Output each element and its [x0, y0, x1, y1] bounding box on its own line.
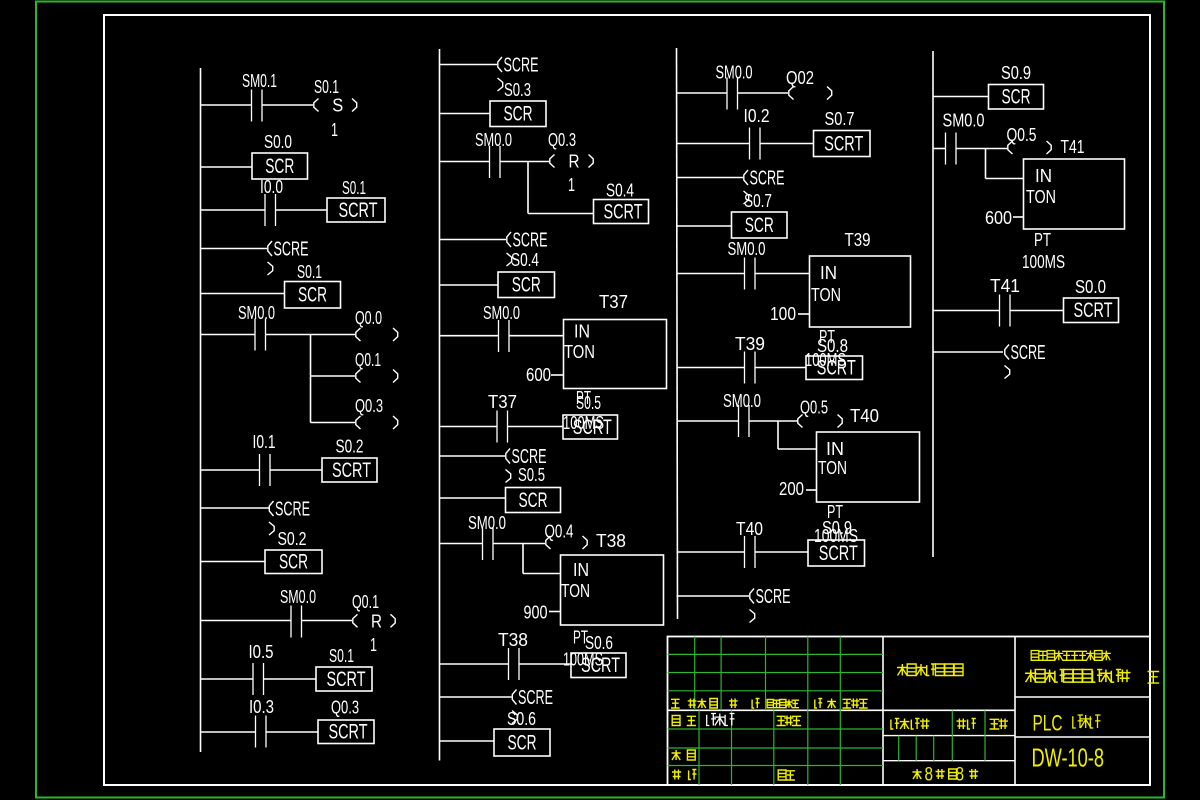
title white line stage row bottom	[883, 735, 1015, 737]
svg-text:R: R	[371, 610, 382, 631]
svg-text:SCRT: SCRT	[329, 720, 368, 744]
label Q0.4	[545, 521, 574, 542]
wire rung11 col1	[201, 678, 254, 680]
svg-text:SCRT: SCRT	[573, 415, 612, 439]
title green vline mid 3	[951, 710, 953, 760]
coil SCRE rung8 col2	[506, 446, 547, 483]
wire rung2 col4	[933, 148, 946, 150]
label S0.0	[264, 131, 292, 152]
box SCRT S0.1	[327, 198, 385, 222]
label DW-10-8	[1032, 743, 1105, 773]
box SCRT S0.4	[594, 199, 649, 223]
label qingshuru material name	[897, 664, 963, 676]
title green vline lower 1	[731, 710, 733, 785]
label T37 contact	[488, 391, 517, 412]
svg-text:S: S	[332, 95, 343, 116]
svg-text:S0.7: S0.7	[744, 190, 772, 211]
contact I0.3	[256, 716, 267, 748]
label ban char	[1148, 672, 1160, 684]
title green vline lower 2	[773, 710, 775, 785]
box SCR S0.0	[252, 153, 308, 179]
label Q0.3 rung12	[331, 697, 359, 718]
svg-text:PLC: PLC	[1033, 711, 1063, 736]
wire rung8 col3	[677, 551, 745, 553]
svg-text:Q02: Q02	[786, 67, 814, 88]
label chushu header	[698, 699, 718, 709]
svg-text:SCRT: SCRT	[819, 541, 858, 565]
title green hline lower 0	[668, 728, 884, 730]
svg-text:8: 8	[956, 765, 965, 786]
coil R Q0.3	[550, 151, 593, 172]
label T39 above box	[845, 229, 871, 250]
label biaozhunhua	[777, 716, 802, 726]
svg-text:T37: T37	[488, 391, 517, 412]
label pizhun	[778, 770, 795, 780]
svg-text:SCR: SCR	[519, 488, 548, 512]
label jieduanbiaoji	[891, 719, 930, 730]
box SCRT S0.1 rung11	[316, 667, 372, 691]
svg-text:I0.1: I0.1	[253, 431, 276, 452]
svg-text:200: 200	[779, 478, 804, 499]
svg-text:Q0.3: Q0.3	[548, 129, 576, 150]
label zhang2	[969, 769, 978, 779]
title green hline lower 2	[668, 765, 884, 767]
contact T39	[745, 352, 756, 384]
label 600 T41	[985, 207, 1012, 228]
svg-text:SCRE: SCRE	[274, 239, 309, 261]
label TON T37	[564, 341, 595, 362]
contact SM0.0 rung3 col2	[490, 146, 501, 178]
label 100MS T41	[1022, 251, 1065, 272]
svg-text:S0.1: S0.1	[342, 177, 366, 198]
title white line cells row bottom	[883, 760, 1015, 762]
svg-text:TON: TON	[561, 580, 590, 601]
label biaoji header	[671, 699, 697, 709]
coil Q02	[789, 87, 832, 100]
wire rung2 col3	[677, 143, 750, 145]
label SM0.0 rung6 col2	[483, 302, 520, 323]
timer box T37 TON	[564, 320, 667, 389]
label bili	[990, 719, 1009, 730]
svg-text:SM0.0: SM0.0	[716, 62, 753, 83]
svg-text:1: 1	[331, 119, 338, 140]
wire rung8 col1	[201, 507, 270, 509]
title green hline upper 1	[668, 672, 884, 674]
contact SM0.0 rung10 col2	[483, 528, 494, 560]
svg-text:S0.0: S0.0	[264, 131, 292, 152]
col3 left power rail	[677, 48, 678, 619]
label I0.1	[253, 431, 276, 452]
branch vertical rung2 col4	[985, 149, 987, 179]
wire rung5 col1	[201, 293, 285, 295]
label PT below T39	[819, 326, 835, 347]
wire rung4 col1	[201, 248, 268, 250]
wire to R coil col1	[302, 620, 353, 622]
wire to TON T39	[755, 273, 810, 275]
label 200 T40	[779, 478, 804, 499]
label S0.1 rung5	[297, 261, 322, 282]
wire rung5 col2	[440, 284, 499, 286]
svg-text:T38: T38	[498, 629, 528, 650]
svg-text:S0.4: S0.4	[511, 249, 539, 270]
label I0.3	[249, 696, 274, 717]
svg-text:Q0.3: Q0.3	[355, 395, 383, 416]
branch wire to Q0.1	[311, 375, 356, 377]
box SCRT S0.9	[808, 540, 865, 566]
box SCRT Q0.3	[318, 720, 374, 744]
svg-text:IN: IN	[826, 438, 844, 459]
title green hline upper 2	[668, 690, 884, 692]
branch wire to SCRT S0.4	[528, 213, 594, 215]
wire rung3 col2	[440, 161, 490, 163]
wire rung1 col2	[440, 64, 498, 66]
wire to Q0.4 coil	[493, 543, 545, 545]
label PT below T40	[827, 501, 843, 522]
label TON T39	[811, 284, 841, 305]
title block outline	[668, 637, 1151, 786]
label SM0.0 rung6 col1	[238, 302, 275, 323]
contact T40	[745, 536, 756, 568]
svg-text:SM0.0: SM0.0	[280, 586, 316, 607]
svg-text:SCRT: SCRT	[332, 458, 371, 482]
svg-text:SM0.0: SM0.0	[475, 129, 512, 150]
label I0.5	[249, 641, 274, 662]
svg-text:TON: TON	[811, 284, 841, 305]
label S0.6 rung13 col2	[507, 708, 536, 729]
label SM0.0 rung1 col3	[716, 62, 753, 83]
svg-text:T39: T39	[735, 333, 765, 354]
svg-text:SM0.0: SM0.0	[468, 512, 506, 533]
svg-text:S0.5: S0.5	[518, 464, 545, 485]
svg-text:S0.9: S0.9	[1001, 62, 1031, 83]
svg-text:100: 100	[770, 303, 796, 324]
wire to SCRT Q0.3	[266, 731, 318, 733]
wire to SCRT S0.7	[760, 143, 814, 145]
wire to SCRT S0.6	[519, 663, 571, 665]
svg-text:I0.5: I0.5	[249, 641, 274, 662]
svg-text:S0.9: S0.9	[822, 517, 852, 538]
box SCRT S0.0	[1064, 298, 1119, 323]
coil SCRE rung8 col1	[269, 499, 310, 536]
wire contact to S coil	[263, 104, 314, 106]
svg-text:SCRE: SCRE	[756, 586, 791, 608]
label IN T41	[1035, 165, 1052, 186]
label S0.4 rung3	[606, 180, 634, 201]
label Q0.5 col3	[800, 397, 828, 418]
svg-text:SCR: SCR	[504, 102, 533, 126]
coil SCRE rung4 col4	[1005, 342, 1046, 379]
label 8 page	[956, 765, 965, 786]
wire rung11 col2	[440, 663, 509, 665]
wire rung3 col1	[201, 209, 266, 211]
box SCRT S0.7	[814, 131, 871, 157]
label 8 total	[925, 765, 934, 786]
wire rung9 col1	[201, 561, 266, 563]
label S0.5 rung7	[576, 392, 601, 413]
wire to SCRT S0.0	[1010, 310, 1064, 312]
svg-text:S0.2: S0.2	[278, 528, 307, 549]
label 100 T39	[770, 303, 796, 324]
col4 left power rail	[932, 51, 934, 557]
svg-text:I0.0: I0.0	[260, 176, 283, 197]
label 100MS T37	[563, 412, 604, 433]
label S0.9 rung8	[822, 517, 852, 538]
svg-text:SM0.0: SM0.0	[728, 238, 766, 259]
svg-text:Q0.4: Q0.4	[545, 521, 574, 542]
coil R Q0.1	[353, 610, 395, 631]
svg-text:S0.8: S0.8	[817, 335, 848, 356]
box SCR S0.6	[494, 729, 550, 756]
label SM0.0 rung10 col1	[280, 586, 316, 607]
wire rung3 col4	[933, 310, 999, 312]
svg-text:IN: IN	[573, 559, 589, 580]
coil S S0.1	[314, 95, 357, 116]
box SCR S0.2	[265, 550, 322, 574]
branch wire to TON T41	[986, 178, 1024, 180]
label school name	[1031, 651, 1111, 661]
svg-text:SCRT: SCRT	[824, 131, 863, 155]
label gongyi	[672, 770, 696, 780]
label IN T40	[826, 438, 844, 459]
label PT below T37	[576, 387, 591, 408]
title green vline lower 3	[807, 710, 809, 785]
svg-text:S0.2: S0.2	[336, 436, 364, 457]
contact I0.2	[750, 128, 761, 160]
label 1 below R coil col2	[568, 174, 575, 195]
svg-text:TON: TON	[564, 341, 595, 362]
svg-text:600: 600	[526, 364, 551, 385]
svg-text:SCR: SCR	[745, 213, 774, 237]
wire rung5 col3	[677, 273, 745, 275]
coil SCRE rung1 col2	[498, 55, 539, 92]
wire to SCRT S0.5	[508, 426, 564, 428]
label T41 above box	[1061, 136, 1085, 157]
label nianyueri header	[843, 699, 868, 709]
title divider vertical mid-left	[882, 637, 884, 786]
svg-text:600: 600	[985, 207, 1012, 228]
contact I0.5	[253, 663, 264, 695]
svg-text:S0.1: S0.1	[329, 645, 354, 666]
label zhang1	[936, 769, 945, 779]
title green vline lower 0	[698, 710, 700, 785]
coil Q0.3	[356, 416, 398, 429]
label S0.1 rung3	[342, 177, 366, 198]
wire rung10 col2	[440, 543, 483, 545]
svg-text:IN: IN	[820, 262, 837, 283]
wire to Q02 coil	[738, 92, 789, 94]
label S0.9 col4	[1001, 62, 1031, 83]
label 100MS T38	[563, 649, 603, 670]
label T40 contact	[736, 518, 763, 539]
svg-text:SCRT: SCRT	[339, 198, 378, 222]
branch vertical rung3 col2	[527, 162, 529, 214]
wire rung12 col2	[440, 696, 512, 698]
contact SM0.1	[252, 90, 263, 122]
wire to R coil col2	[500, 161, 549, 163]
label 600 T37	[526, 364, 551, 385]
wire to SCRT S0.1	[276, 209, 328, 211]
label S0.7 rung4 col3	[744, 190, 772, 211]
contact T41	[1000, 295, 1011, 327]
wire PT stub T38	[549, 611, 561, 613]
title green vline mid 0	[898, 736, 900, 761]
svg-text:I0.3: I0.3	[249, 696, 274, 717]
svg-text:1: 1	[370, 634, 377, 655]
label S0.8 rung6	[817, 335, 848, 356]
label T41 contact	[990, 275, 1020, 296]
svg-text:SM0.1: SM0.1	[242, 70, 277, 91]
contact SM0.0 rung7 col3	[739, 405, 750, 437]
svg-text:T40: T40	[736, 518, 763, 539]
svg-text:SCRT: SCRT	[817, 356, 856, 380]
title green vline mid 2	[933, 736, 935, 761]
wire rung4 col2	[440, 239, 507, 241]
label qianming header	[815, 699, 836, 709]
svg-text:T39: T39	[845, 229, 871, 250]
svg-text:S0.1: S0.1	[314, 76, 339, 97]
svg-text:SM0.0: SM0.0	[943, 110, 985, 131]
svg-text:SM0.0: SM0.0	[723, 390, 761, 411]
svg-text:IN: IN	[1035, 165, 1052, 186]
svg-text:T41: T41	[990, 275, 1020, 296]
box SCR S0.3	[490, 101, 546, 127]
label S0.5 rung9 col2	[518, 464, 545, 485]
box SCRT S0.5	[563, 415, 618, 439]
svg-text:PT: PT	[1034, 229, 1051, 250]
svg-text:S0.5: S0.5	[576, 392, 601, 413]
contact SM0.0 rung2 col4	[946, 133, 957, 165]
svg-text:S0.7: S0.7	[825, 108, 855, 129]
svg-text:T40: T40	[850, 405, 879, 426]
svg-text:900: 900	[524, 602, 548, 623]
label di	[949, 769, 957, 779]
wire to SCRT S0.9	[755, 551, 808, 553]
wire rung4 col4	[933, 351, 1003, 353]
svg-text:SCR: SCR	[298, 283, 327, 307]
col2 left power rail	[439, 49, 441, 761]
svg-text:SCRT: SCRT	[1074, 298, 1113, 322]
label I0.2	[744, 105, 770, 126]
svg-text:IN: IN	[574, 321, 590, 342]
contact SM0.0 rung10 col1	[291, 606, 302, 638]
wire rung8 col2	[440, 455, 506, 457]
label IN T37	[574, 321, 590, 342]
col1 left power rail	[200, 68, 202, 752]
svg-text:TON: TON	[818, 457, 847, 478]
wire rung12 col1	[201, 731, 256, 733]
label Q0.0	[355, 307, 382, 328]
contact SM0.0 rung6 col1	[255, 319, 266, 351]
label SM0.0 rung2 col4	[943, 110, 985, 131]
label gong	[913, 769, 922, 779]
label S0.2 rung9	[278, 528, 307, 549]
title green hline lower 1	[668, 747, 884, 749]
coil SCRE rung12 col2	[512, 687, 553, 724]
svg-text:SM0.0: SM0.0	[238, 302, 275, 323]
label PT below T38	[573, 627, 588, 648]
svg-text:8: 8	[925, 765, 934, 786]
svg-text:SCR: SCR	[1002, 85, 1031, 109]
label TON T40	[818, 457, 847, 478]
svg-text:DW-10-8: DW-10-8	[1032, 743, 1105, 773]
coil Q0.5 col4	[1008, 141, 1051, 154]
wire rung6 col2	[440, 335, 499, 337]
label sheji	[672, 716, 696, 726]
title green vline upper 3	[807, 637, 809, 711]
label Q0.5 col4	[1007, 124, 1037, 145]
svg-text:S0.1: S0.1	[297, 261, 322, 282]
svg-text:SCR: SCR	[508, 730, 537, 754]
wire rung9 col2	[440, 497, 506, 499]
wire rung4 col3	[677, 225, 732, 227]
wire PT stub T41	[1013, 216, 1024, 218]
label SM0.0 rung7 col3	[723, 390, 761, 411]
coil SCRE rung9 col3	[750, 586, 791, 623]
wire rung1 col3	[677, 92, 728, 94]
title green vline mid 4	[984, 710, 986, 760]
box SCR S0.7	[732, 212, 788, 238]
box SCRT S0.6	[571, 653, 626, 678]
svg-text:Q0.5: Q0.5	[1007, 124, 1037, 145]
title green vline lower 4	[839, 710, 841, 785]
svg-text:T38: T38	[596, 530, 626, 551]
wire PT stub T40	[806, 489, 817, 491]
wire rung6 col1	[201, 334, 256, 336]
wire to SCRT S0.8	[755, 367, 806, 369]
wire to Q0.5 coil col3	[749, 420, 798, 422]
label pandianwang signature	[707, 714, 735, 726]
coil Q0.0	[356, 328, 398, 341]
svg-text:S0.0: S0.0	[1075, 276, 1106, 297]
label zhiliang	[957, 719, 976, 730]
label I0.0	[260, 176, 283, 197]
label T38 above box	[596, 530, 626, 551]
svg-text:SCRT: SCRT	[604, 199, 643, 223]
wire to TON T37	[509, 335, 564, 337]
label IN T38	[573, 559, 589, 580]
label Q02	[786, 67, 814, 88]
contact SM0.0 rung6 col2	[499, 320, 510, 352]
box SCRT S0.2	[322, 458, 377, 482]
title white row line above design row	[668, 709, 1016, 711]
contact T37	[497, 411, 508, 443]
wire rung13 col2	[440, 740, 495, 742]
label S0.2 rung7	[336, 436, 364, 457]
svg-text:I0.2: I0.2	[744, 105, 770, 126]
label IN T39	[820, 262, 837, 283]
coil SCRE rung3 col3	[744, 168, 785, 205]
wire rung7 col1	[201, 469, 260, 471]
wire to Q0.5 coil col4	[956, 148, 1007, 150]
svg-text:TON: TON	[1026, 186, 1056, 207]
title green vline upper 2	[765, 637, 767, 711]
wire PT stub T37	[551, 374, 564, 376]
label S0.4 rung5 col2	[511, 249, 539, 270]
title green vline upper 0	[694, 637, 696, 711]
title divider vertical mid-right	[1014, 637, 1016, 786]
box SCRT S0.8	[806, 356, 863, 380]
branch wire to TON T38	[523, 573, 561, 575]
wire contact to Q0.0 coil	[266, 334, 356, 336]
label S0.1 rung11	[329, 645, 354, 666]
branch wire to Q0.3	[311, 422, 356, 424]
label T39 contact	[735, 333, 765, 354]
wire rung6 col3	[677, 367, 745, 369]
svg-text:Q0.0: Q0.0	[355, 307, 382, 328]
label SM0.0 rung5 col3	[728, 238, 766, 259]
svg-text:SCRT: SCRT	[327, 667, 366, 691]
label SM0.0 rung3 col2	[475, 129, 512, 150]
